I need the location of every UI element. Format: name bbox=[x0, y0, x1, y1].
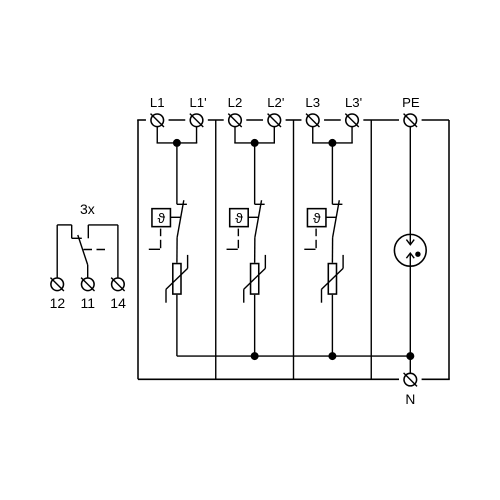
terminal PE bbox=[404, 114, 417, 127]
terminal 11 bbox=[81, 278, 94, 291]
svg-text:ϑ: ϑ bbox=[313, 210, 321, 226]
terminal L1 bbox=[151, 114, 164, 127]
svg-text:14: 14 bbox=[110, 295, 126, 311]
wire disconnector to varistor 1 bbox=[176, 238, 178, 263]
wire terminal 11 bbox=[87, 265, 89, 278]
compartment divider 1 bbox=[215, 120, 217, 379]
wire junction to disconnector 3 bbox=[331, 143, 333, 204]
varistor (MOV) phase L2 bbox=[244, 255, 266, 303]
svg-text:L3: L3 bbox=[305, 95, 320, 110]
label L1 bbox=[150, 95, 165, 110]
svg-text:12: 12 bbox=[50, 295, 66, 311]
terminal L3' bbox=[345, 114, 358, 127]
svg-text:L1': L1' bbox=[189, 95, 206, 110]
dashed mechanical indicator line 1 bbox=[149, 229, 161, 250]
wire L3' terminal to junction bbox=[332, 127, 352, 143]
junction node L1 bbox=[173, 139, 181, 147]
wire varistor 3 to bottom bus bbox=[331, 295, 333, 356]
dashed mechanical indicator line 3 bbox=[304, 229, 316, 250]
terminal L2 bbox=[228, 114, 241, 127]
gas discharge tube N-PE bbox=[394, 127, 426, 267]
svg-text:L3': L3' bbox=[345, 95, 362, 110]
terminal L1' bbox=[190, 114, 203, 127]
link theta box to blade 3 bbox=[326, 216, 336, 218]
wire terminal 12 bbox=[56, 225, 58, 278]
thermal sensing element 1 (theta box) bbox=[152, 209, 171, 227]
wire L2' terminal to junction bbox=[255, 127, 275, 143]
label 12 bbox=[50, 295, 66, 311]
label L1' bbox=[189, 95, 206, 110]
compartment divider 2 bbox=[293, 120, 295, 379]
auxiliary changeover contact: NO branch rail (terminal 14) bbox=[88, 225, 118, 238]
terminal N bbox=[404, 373, 417, 386]
terminal L2' bbox=[268, 114, 281, 127]
junction bus / varistor L3 bbox=[328, 352, 336, 360]
thermal sensing element 3 (theta box) bbox=[307, 209, 326, 227]
terminal L3 bbox=[306, 114, 319, 127]
svg-text:N: N bbox=[405, 392, 415, 407]
label PE bbox=[402, 95, 420, 110]
svg-text:PE: PE bbox=[402, 95, 420, 110]
dashed mechanical indicator line 2 bbox=[227, 229, 239, 250]
enclosure outline bbox=[137, 120, 450, 379]
varistor (MOV) phase L1 bbox=[166, 255, 188, 303]
thermal disconnector switch 2 bbox=[255, 200, 265, 237]
wire terminal 14 bbox=[117, 225, 119, 278]
wire L2 terminal to junction bbox=[234, 127, 254, 143]
link theta box to blade 2 bbox=[248, 216, 258, 218]
label L2 bbox=[228, 95, 243, 110]
bottom bus wire to N bbox=[177, 355, 410, 357]
compartment divider 3 bbox=[370, 120, 372, 379]
dashed actuator link bbox=[84, 249, 106, 251]
wire L1' terminal to junction bbox=[177, 127, 197, 143]
label L3 bbox=[305, 95, 320, 110]
junction bus / N column bbox=[406, 352, 414, 360]
label L2' bbox=[267, 95, 284, 110]
svg-text:L1: L1 bbox=[150, 95, 165, 110]
wire disconnector to varistor 3 bbox=[331, 238, 333, 263]
wire varistor 2 to bottom bus bbox=[254, 295, 256, 356]
svg-text:L2': L2' bbox=[267, 95, 284, 110]
terminal 14 bbox=[111, 278, 124, 291]
junction node L2 bbox=[251, 139, 259, 147]
wire junction to disconnector 2 bbox=[254, 143, 256, 204]
label L3' bbox=[345, 95, 362, 110]
thermal sensing element 2 (theta box) bbox=[230, 209, 249, 227]
svg-text:ϑ: ϑ bbox=[235, 210, 243, 226]
label 14 bbox=[110, 295, 126, 311]
wire GDT to bus junction and N terminal bbox=[409, 267, 411, 373]
link theta box to blade 1 bbox=[170, 216, 180, 218]
auxiliary changeover contact: NC branch rail (terminal 12) bbox=[57, 225, 82, 238]
label N bbox=[405, 392, 415, 407]
auxiliary changeover contact: common blade bbox=[78, 235, 88, 265]
varistor (MOV) phase L3 bbox=[322, 255, 344, 303]
svg-text:3x: 3x bbox=[80, 201, 95, 217]
thermal disconnector switch 3 bbox=[332, 200, 342, 237]
wire L1 terminal to junction bbox=[157, 127, 177, 143]
junction node L3 bbox=[328, 139, 336, 147]
thermal disconnector switch 1 bbox=[177, 200, 187, 237]
wire junction to disconnector 1 bbox=[176, 143, 178, 204]
svg-text:L2: L2 bbox=[228, 95, 243, 110]
label 3x (three changeover contacts) bbox=[80, 201, 95, 217]
wire varistor 1 to bottom bus bbox=[176, 295, 178, 356]
wire L3 terminal to junction bbox=[312, 127, 332, 143]
svg-text:11: 11 bbox=[81, 295, 96, 311]
wire disconnector to varistor 2 bbox=[254, 238, 256, 263]
terminal 12 bbox=[50, 278, 63, 291]
svg-text:ϑ: ϑ bbox=[157, 210, 165, 226]
label 11 bbox=[81, 295, 96, 311]
junction bus / varistor L2 bbox=[251, 352, 259, 360]
